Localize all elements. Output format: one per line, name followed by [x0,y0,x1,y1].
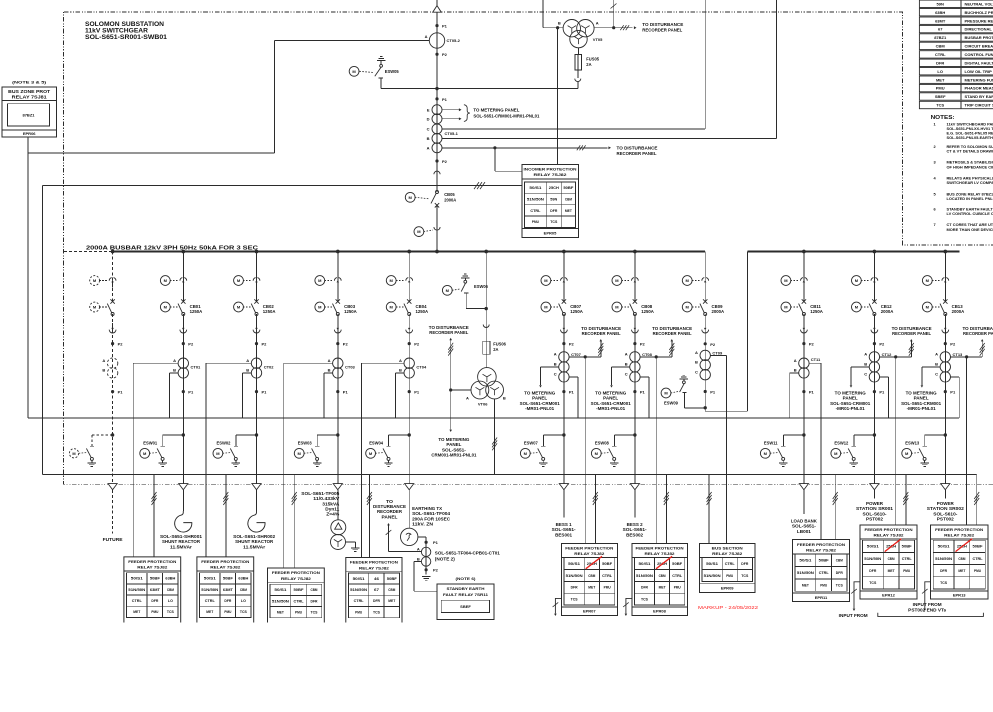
svg-text:P1: P1 [414,390,420,395]
svg-text:PMU: PMU [355,610,362,614]
wire CT09 A to bus section relay EPR09 [710,354,726,356]
wire CT12 B phase to metering panel [851,366,869,368]
svg-text:ESW12: ESW12 [834,440,849,445]
svg-text:CTRL: CTRL [132,599,143,603]
svg-text:(NOTE 6): (NOTE 6) [456,577,477,581]
breaker pivot [182,313,185,316]
boundary feeder triangle [252,484,261,490]
svg-text:DFR: DFR [224,599,231,603]
svg-text:FEEDER PROTECTION: FEEDER PROTECTION [350,560,398,565]
fuse FUS05 [578,48,580,55]
svg-text:CTRL: CTRL [973,557,984,561]
svg-text:2: 2 [934,144,937,149]
svg-text:B: B [935,362,938,367]
svg-text:M: M [446,288,450,293]
svg-text:1250A: 1250A [263,309,276,314]
svg-text:C: C [935,372,938,377]
svg-text:67: 67 [374,588,379,592]
node P1 [408,390,411,393]
node P1 [111,390,114,393]
node busbar junction CB12 [873,250,877,254]
breaker pivot [408,313,411,316]
racking motor M upper [541,276,551,286]
svg-text:M: M [318,305,322,310]
wire CT05-1 A to EPR05 [442,147,495,149]
svg-text:PMU: PMU [820,583,827,587]
svg-text:EPR06: EPR06 [23,131,36,136]
svg-text:M: M [164,278,168,283]
svg-text:TCS: TCS [571,598,578,602]
svg-text:RECORDER PANEL: RECORDER PANEL [617,151,658,156]
fuse release hook VT06 [483,325,489,328]
withdrawable contact upper [180,278,183,281]
arrow CT05-1 E to metering [442,109,460,111]
node P1 [255,390,258,393]
svg-text:1250A: 1250A [190,309,203,314]
node P2 [255,342,258,345]
svg-text:M: M [544,278,548,283]
wire CT04 B phase to buszone bus [395,372,404,374]
svg-text:P1: P1 [118,390,124,395]
svg-text:CTRL: CTRL [935,52,946,57]
wire CT13 C phase to buszone bus [951,376,960,378]
svg-text:EPR13: EPR13 [953,593,966,598]
boundary feeder triangle [630,484,639,490]
svg-text:M: M [664,391,668,396]
relay box FEEDER PROTECTION [346,558,402,623]
svg-text:A: A [417,546,420,551]
earth switch ESW03 [336,433,339,436]
node P1 [802,390,805,393]
breaker blade [700,304,704,313]
svg-text:NEUTRAL VOLTAGE DISP: NEUTRAL VOLTAGE DISP [965,1,993,6]
svg-text:11kV. ZN: 11kV. ZN [412,522,433,527]
svg-text:A: A [425,34,428,39]
svg-text:C: C [864,372,867,377]
feeder wire CT to ESW to boundary [944,344,946,484]
svg-text:P1: P1 [640,390,646,395]
svg-text:RELAY 7SJ82: RELAY 7SJ82 [806,547,837,552]
fuse release hook FUS05 [577,70,579,78]
svg-text:51N/50N: 51N/50N [864,557,881,561]
shunt reactor SHR002 [248,511,265,532]
svg-text:TCS: TCS [836,583,843,587]
boundary feeder triangle [941,484,950,490]
svg-text:P1: P1 [879,390,885,395]
svg-text:P2: P2 [442,159,448,164]
svg-text:P2: P2 [343,342,349,347]
svg-text:PST002 END VTs: PST002 END VTs [908,607,947,612]
svg-text:63MT: 63MT [935,18,946,23]
node P1 [944,390,947,393]
svg-text:DFR: DFR [311,599,318,603]
breaker cross contact [336,299,340,303]
wire CT12 C phase to buszone bus [880,376,889,378]
breaker motor operator M [612,302,622,312]
svg-text:M: M [615,278,619,283]
wire from top to VT05 B phase [542,0,544,28]
CT05-2 current transformer [429,33,444,48]
svg-text:ESW09: ESW09 [664,401,679,406]
svg-text:MET: MET [277,611,285,615]
svg-text:4: 4 [934,176,937,181]
off-page connector triangle incomer [433,6,442,13]
svg-text:ESW03: ESW03 [298,440,313,445]
svg-text:CONTROL FUNCTIONS: CONTROL FUNCTIONS [965,52,993,57]
svg-text:PRESSURE RELIEF TRIP: PRESSURE RELIEF TRIP [965,18,993,23]
svg-text:DFR: DFR [940,569,947,573]
earthing transformer TF004 [401,528,418,545]
node P2 CT05-2 [435,53,438,56]
wire VT05 A to disturbance recorder [594,27,614,29]
node P2 TF004 CT [425,568,428,571]
svg-text:BUS ZONE PROT: BUS ZONE PROT [8,89,51,94]
breaker motor operator M [386,302,396,312]
wire CT02 B phase to buszone bus [243,372,252,374]
breaker pivot [944,313,947,316]
withdrawable contact upper [871,278,874,281]
svg-text:50/S1: 50/S1 [568,562,580,566]
svg-text:(NOTE 3 & 5): (NOTE 3 & 5) [12,81,47,85]
svg-text:RECORDER PANEL: RECORDER PANEL [642,28,683,33]
feeder wire CT to ESW to boundary [873,344,875,484]
svg-text:(NOTE 2): (NOTE 2) [435,556,456,561]
wire TF004 CT B to SBEF relay [414,561,421,563]
svg-text:FEEDER PROTECTION: FEEDER PROTECTION [935,527,983,532]
svg-text:RELAY 7SJ82: RELAY 7SJ82 [944,533,975,538]
feeder wire CB08 [634,252,636,302]
svg-text:TCS: TCS [167,610,174,614]
svg-text:CIRCUIT BREAKER MON: CIRCUIT BREAKER MON [965,44,993,49]
svg-text:MET: MET [565,209,573,213]
svg-text:A: A [328,358,331,363]
earth switch ESW09 [704,406,707,409]
svg-text:TCS: TCS [940,581,947,585]
future bay boundary triangle [108,484,117,490]
svg-text:CT01: CT01 [191,364,202,369]
svg-text:A: A [102,358,105,363]
fuse FUS06 [483,341,490,354]
relay box FEEDER PROTECTION [124,557,181,623]
feeder wire CB02 [256,252,258,302]
svg-text:50/S1: 50/S1 [867,545,879,549]
svg-text:50/S1: 50/S1 [639,562,651,566]
svg-text:MET: MET [588,586,596,590]
racking motor M upper [612,276,622,286]
svg-text:P2: P2 [569,342,575,347]
current transformer CT12 [869,352,879,362]
wire CT03 A phase to relay box [284,362,333,364]
feeder wire CB03 [337,252,339,302]
relay box EPR05 incomer protection [522,164,579,237]
svg-text:RELAY 7SJ82: RELAY 7SJ82 [534,172,568,177]
breaker motor operator M [315,302,325,312]
node P1 [336,390,339,393]
wire CT08 A phase to relay box and disturbance recorder [640,356,672,358]
feeder wire CT to ESW to boundary [563,344,565,484]
svg-text:PMU: PMU [726,574,733,578]
wire CT04 A phase to relay box [362,362,404,364]
wire VT06 A phase to metering and disturbance [451,389,471,391]
wire CT02 A phase to relay box [206,362,251,364]
svg-text:P1: P1 [569,390,575,395]
svg-text:51N/50N: 51N/50N [636,574,653,578]
feeder wire CB04 to earthing transformer [408,490,410,528]
svg-text:51N/50N: 51N/50N [566,574,583,578]
trip wire EPR08 left [626,598,632,613]
svg-text:1: 1 [934,121,937,126]
svg-text:ESW02: ESW02 [217,440,232,445]
svg-text:EPR09: EPR09 [721,585,734,590]
svg-text:50BF: 50BF [223,577,234,581]
svg-text:M: M [390,278,394,283]
wire EPR06 to CT05-2 and L1 [27,137,29,418]
svg-text:50/S1: 50/S1 [353,577,365,581]
svg-text:51N/50N: 51N/50N [201,588,218,592]
svg-text:M: M [237,305,241,310]
svg-text:RECORDER PANEL: RECORDER PANEL [653,331,693,336]
svg-text:87BZ1: 87BZ1 [22,113,35,118]
earth switch ESW07 [562,433,565,436]
node P2 CB09 [704,342,707,345]
node P2 [336,342,339,345]
future bay dashed tail [112,490,114,534]
svg-text:-MR01-PNL01: -MR01-PNL01 [907,406,937,411]
svg-text:RELAY 7SJ82: RELAY 7SJ82 [574,551,605,556]
svg-text:P1: P1 [809,390,815,395]
breaker blade [630,304,634,313]
breaker blade [333,304,337,313]
svg-text:DFR: DFR [550,209,557,213]
svg-text:CBM: CBM [936,44,946,49]
wire EPR05 horizontal to L2 [41,186,43,475]
svg-text:M: M [93,305,97,310]
svg-text:M: M [686,278,690,283]
wire CT01 A phase to relay box [133,362,178,364]
svg-text:63BH: 63BH [238,577,248,581]
svg-text:M: M [318,278,322,283]
racking motor M upper [386,276,396,286]
busbar right section [748,250,960,252]
svg-text:FUS05: FUS05 [586,57,599,62]
svg-text:A: A [794,358,797,363]
earth switch ESW06 [485,307,488,310]
earth switch ESW12 [873,433,876,436]
CT05-1 five core current transformer [432,105,442,115]
relay box EPR06 bus zone protection [2,87,56,137]
svg-text:B: B [503,396,506,401]
trip wire EPR07 left [555,598,561,613]
wire CT05-1 C to bus section riser [442,128,705,130]
node P2 [408,342,411,345]
svg-text:C: C [427,127,430,132]
svg-text:TO DISTURBANCE: TO DISTURBANCE [617,146,658,151]
svg-text:A: A [246,358,249,363]
withdrawable contact upper [801,278,804,281]
relay box EPR09 [699,543,755,592]
node VT05 B junction to EPR05 [556,26,559,29]
withdrawable contact lower [561,330,568,333]
svg-text:1250A: 1250A [570,309,583,314]
svg-text:B: B [695,360,698,365]
svg-text:-MR01-PNL01: -MR01-PNL01 [836,406,866,411]
svg-text:P1: P1 [188,390,194,395]
relay box SBEF standby earth fault [437,584,494,620]
svg-text:DFR: DFR [151,599,158,603]
feeder wire CB04 [408,252,410,302]
earth switch ESW05 [435,87,438,90]
svg-text:ESW13: ESW13 [905,440,920,445]
svg-text:PMU: PMU [295,611,302,615]
svg-text:PMU: PMU [224,610,231,614]
racking motor M upper [234,276,244,286]
node busbar junction CB13 [943,250,947,254]
svg-text:B: B [554,362,557,367]
svg-text:M: M [164,305,168,310]
wire TF004 to neutral CT [418,536,426,538]
svg-text:RELAY 7SJ82: RELAY 7SJ82 [137,565,168,570]
feeder wire CT to ESW to boundary [634,344,636,484]
wire CT05-1 A to disturbance recorder [495,147,608,149]
svg-text:51N/50N: 51N/50N [272,599,289,603]
svg-text:MET: MET [936,77,945,82]
svg-text:50/S1: 50/S1 [799,559,811,563]
svg-text:CT12: CT12 [882,352,893,357]
svg-text:BUCHHOLZ PROTECTION: BUCHHOLZ PROTECTION [965,10,993,15]
svg-text:P2: P2 [188,342,194,347]
withdrawable contact upper [334,278,337,281]
legend table device codes [919,0,993,7]
svg-text:PMU: PMU [903,569,910,573]
switchgear boundary dash-dot border [64,12,993,245]
svg-text:LO: LO [937,69,943,74]
withdrawable contact upper [406,278,409,281]
svg-text:RELAY 7SJ82: RELAY 7SJ82 [281,576,312,581]
feeder wire CB11 [803,252,805,302]
wire CT12 A phase to relay box and disturbance recorder [880,356,912,358]
svg-text:M: M [352,69,356,74]
node P1 CT05-1 [435,97,438,100]
svg-text:CT11: CT11 [811,357,821,362]
wire CT08 B phase to metering panel [612,366,630,368]
shunt reactor SHR001 [175,511,192,532]
svg-text:1250A: 1250A [810,309,823,314]
svg-text:M: M [926,278,930,283]
svg-text:PHASOR MEASUREMENT: PHASOR MEASUREMENT [965,86,993,91]
input wire EPR12 left [854,582,860,609]
svg-text:B: B [625,362,628,367]
svg-text:P1: P1 [343,390,349,395]
svg-text:BES002: BES002 [626,532,644,537]
svg-text:TCS: TCS [311,611,318,615]
current transformer CT01 [178,358,188,368]
svg-text:SOL-S651-PNL05-EARTH SWITCH: SOL-S651-PNL05-EARTH SWITCH [947,135,993,140]
incomer feeder from top [436,0,438,192]
svg-text:M: M [298,451,302,456]
svg-text:SBEF: SBEF [460,604,471,609]
svg-text:ESW05: ESW05 [385,69,400,74]
svg-text:2000A: 2000A [952,309,965,314]
svg-text:CTRL: CTRL [354,599,365,603]
svg-text:63BH: 63BH [165,577,175,581]
svg-text:DFR: DFR [571,586,578,590]
svg-text:MET: MET [133,610,141,614]
feeder wire CB13 [944,252,946,302]
svg-text:DFR: DFR [936,60,944,65]
wire panel bus to relay box with cable marks [368,474,370,557]
node busbar junction CB08 [633,250,637,254]
svg-text:STAND BY EARTH FAUL: STAND BY EARTH FAUL [965,94,993,99]
svg-text:FEEDER PROTECTION: FEEDER PROTECTION [565,546,613,551]
svg-text:SBEF: SBEF [935,94,946,99]
boundary feeder triangle [179,484,188,490]
withdrawable contact upper CB09 [702,278,705,281]
breaker cross contact [872,299,876,303]
withdrawable contact lower [942,330,949,333]
svg-text:FUS06: FUS06 [493,341,506,346]
svg-text:PST002: PST002 [937,517,955,522]
ground TF005 neutral [345,541,355,543]
racking motor M upper [781,276,791,286]
neutral CT SOL-S651-TF004-CPB01-CT01 [421,547,430,556]
svg-text:M: M [595,451,599,456]
svg-text:EPR11: EPR11 [815,595,828,600]
svg-text:7: 7 [934,222,936,227]
svg-text:B: B [328,368,331,373]
red markup slash [956,539,973,552]
wire panel bus to relay box with cable marks [905,474,907,525]
current transformer CT11 [799,358,809,368]
svg-text:B: B [558,20,561,25]
svg-text:SWITCHGEAR LV COMPARTMENT: SWITCHGEAR LV COMPARTMENT [947,180,993,185]
racking motor M upper [315,276,325,286]
future bay racking motor upper [90,276,100,286]
breaker motor operator M [852,302,862,312]
boundary feeder triangle [870,484,879,490]
svg-text:CBM: CBM [958,557,965,561]
svg-text:LB001: LB001 [797,529,812,534]
feeder wire CB02 to shunt reactor [256,490,258,511]
svg-text:1250A: 1250A [416,309,429,314]
wire bus section riser to right busbar [704,408,706,411]
input wire EPR13 left [925,582,931,609]
svg-text:RELAY 7SJ82: RELAY 7SJ82 [712,551,743,556]
svg-text:VT05: VT05 [593,37,603,42]
svg-text:RECORDER PANEL: RECORDER PANEL [963,331,993,336]
svg-text:3: 3 [934,160,937,165]
svg-text:P2: P2 [710,342,716,347]
svg-text:CBM: CBM [311,588,318,592]
svg-text:67: 67 [938,27,943,32]
breaker blade [404,304,408,313]
svg-text:-MR01-PNL01: -MR01-PNL01 [525,406,555,411]
withdrawable contact lower [180,330,187,333]
svg-text:ESW07: ESW07 [524,440,539,445]
svg-text:P2: P2 [262,342,268,347]
svg-text:DFR: DFR [741,562,748,566]
racking motor M upper [160,276,170,286]
wire bus section riser to disturbance recorder [704,0,706,129]
wire CT11 B phase to buszone bus [790,372,799,374]
bus wire L1 buszone CT bus [28,417,959,419]
node P1 [182,390,185,393]
svg-text:M: M [905,451,909,456]
svg-text:P2: P2 [118,342,124,347]
svg-text:MORE THAN ONE DEVICE SHALL: MORE THAN ONE DEVICE SHALL [947,227,993,232]
svg-text:C: C [695,369,698,374]
feeder wire CB08 to BESS 2 [634,490,636,518]
svg-text:TRIP CIRCUIT SUPERVI: TRIP CIRCUIT SUPERVI [965,103,993,108]
